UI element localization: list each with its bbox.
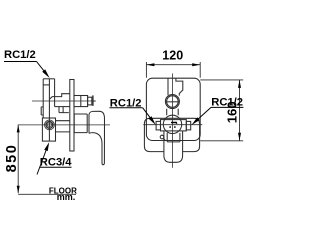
svg-text:120: 120 (162, 48, 183, 62)
svg-text:160: 160 (225, 101, 240, 123)
svg-text:mm.: mm. (57, 192, 76, 202)
svg-text:RC1/2: RC1/2 (4, 49, 36, 61)
svg-text:850: 850 (4, 144, 20, 173)
svg-text:RC1/2: RC1/2 (110, 97, 142, 109)
svg-text:RC3/4: RC3/4 (40, 156, 72, 168)
